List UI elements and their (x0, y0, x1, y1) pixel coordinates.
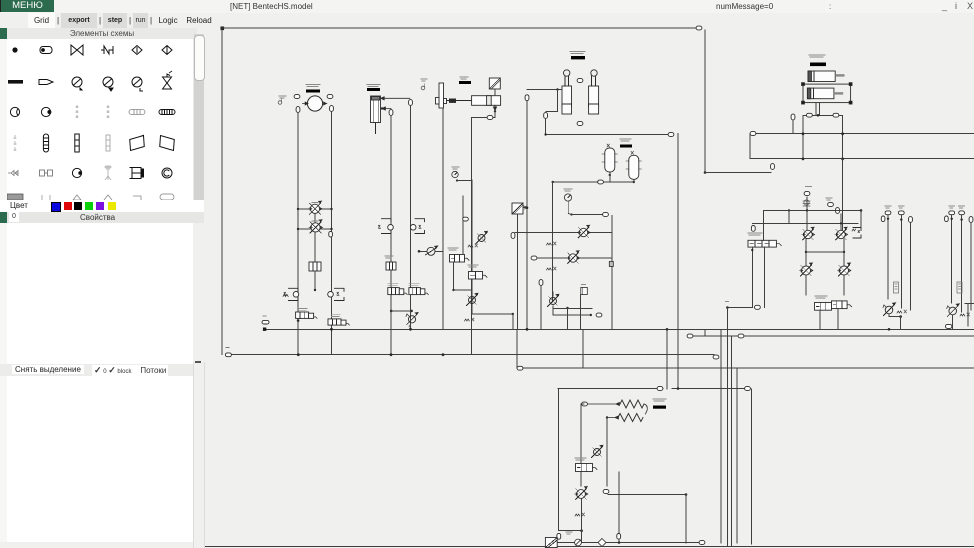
node RB v2 end (755, 305, 761, 309)
label RBV pair (815, 296, 827, 298)
wire tank right arrow 1 (381, 97, 410, 100)
junction RC top (960, 218, 962, 220)
node RC2 side a (945, 216, 949, 222)
wire col 443 (442, 108, 444, 329)
check valve L1 (308, 201, 322, 214)
junction bus (802, 158, 805, 161)
node B h2 end (745, 387, 751, 391)
wire twin feed down (545, 119, 547, 135)
valve M22 b (410, 219, 424, 234)
wire RB v1 (751, 247, 753, 308)
wire linblocks colL (802, 115, 804, 159)
check valve RB2 (835, 227, 848, 239)
label vise bar (459, 81, 471, 84)
label tank bar (367, 88, 380, 91)
spring S2 (618, 414, 643, 422)
junction W3 c (442, 353, 445, 356)
wire B left v (558, 389, 560, 531)
node RC2 cap0 (949, 211, 955, 215)
node twin top (577, 79, 583, 83)
label RB top text (806, 186, 812, 188)
node RC1 side b (909, 217, 913, 223)
junction L corner (704, 171, 707, 174)
wire RB v5 (763, 210, 765, 240)
node pump right top (327, 95, 333, 99)
valve L22 a (284, 288, 299, 300)
junction L1 a (297, 208, 299, 210)
wire Lbox down (314, 271, 316, 290)
wire filter to 370 (516, 329, 518, 368)
node bus R a (687, 334, 693, 338)
node col 793 (791, 114, 795, 120)
wire linblocks hrow (803, 114, 843, 116)
valve Nbox2 (469, 272, 488, 280)
label RC1 t1 (898, 206, 904, 208)
junction W3 a (297, 353, 300, 356)
node twin feed (544, 113, 548, 119)
wire MH left (419, 250, 427, 252)
wire L1 h2 (320, 208, 332, 210)
wire L1 h1 (298, 208, 310, 210)
junction P c (526, 328, 529, 331)
label RC2 t0 (949, 206, 955, 208)
spring marks L22a (283, 294, 288, 296)
linblocks cylinder 2 (807, 88, 843, 99)
check valve MH (426, 246, 438, 255)
node top border end (696, 26, 702, 30)
wire B v607 (606, 418, 608, 487)
wire MV link (391, 310, 411, 312)
wire accum A down (609, 172, 611, 182)
wire spring1 arrow (588, 403, 619, 406)
wire RB h2 (752, 222, 858, 224)
spring marks N3 (465, 318, 475, 321)
node drain (487, 116, 493, 120)
label pump bar (306, 90, 320, 93)
node linblocks left (807, 113, 813, 117)
junction bus (841, 132, 844, 135)
node RB top (804, 192, 810, 196)
valve L22 b (328, 288, 344, 300)
node tank wire1 (409, 100, 413, 106)
wire B h2 (672, 388, 748, 390)
node frame bottom corner (225, 353, 231, 357)
node twin bottom (577, 122, 583, 126)
wire RB mid v2 (840, 214, 842, 230)
junction EM15 a (297, 319, 300, 322)
wire twin v short (557, 90, 559, 112)
label Nbox (448, 248, 458, 250)
valve MV1 (388, 288, 408, 295)
wire RC2 v1 (951, 216, 953, 304)
junction accum bus (552, 181, 554, 183)
label vert RC2 (957, 282, 962, 293)
wire cv row1 (515, 232, 612, 234)
wire col 678 (677, 134, 679, 389)
wire B low h (559, 530, 582, 532)
label twin cyl text (570, 52, 585, 54)
node spring1 start (582, 402, 588, 406)
wire B v581 low (581, 499, 583, 543)
wire RB mid v3 (805, 239, 807, 266)
node pump left bottom (296, 107, 300, 113)
wire RBV down2 (837, 309, 839, 330)
label RC2 t1 (959, 206, 965, 208)
wire left border (221, 28, 223, 355)
label Nbox2 (468, 265, 478, 267)
node pump right bottom (330, 106, 334, 112)
label B mid (566, 532, 572, 534)
junction MVd2 (410, 310, 413, 313)
gauge vise (452, 171, 458, 177)
label motor M text (279, 96, 286, 98)
valve box L (309, 262, 321, 271)
label RC1 t0 (885, 206, 891, 208)
wire RC2 v2 (961, 216, 963, 313)
junction 571 (566, 307, 568, 309)
node pump left top (294, 95, 300, 99)
valve RC2 (947, 304, 960, 317)
filter mid arrow (524, 206, 528, 209)
node square 611 (609, 262, 613, 267)
node bus M start (750, 132, 756, 136)
wire RB link (806, 251, 844, 253)
node bus S start (517, 366, 523, 370)
flag box (581, 285, 588, 295)
label MV3 2 (409, 325, 411, 327)
spring marks B (575, 513, 585, 516)
junction RB d1 (805, 251, 807, 253)
junction W3 b (390, 353, 393, 356)
spring marks N1 (468, 244, 478, 247)
wire pump right down (331, 112, 333, 355)
linblocks cylinder 1 (808, 71, 845, 82)
wire N v3 (512, 314, 514, 329)
wire Nbox h (454, 289, 473, 291)
valve RC1 (883, 303, 896, 316)
node B 619 cap (617, 534, 621, 540)
node RC2 cap1 (959, 211, 965, 215)
wire gauge h (572, 214, 603, 216)
junction L1 b (330, 208, 332, 210)
junction RB e2 (840, 222, 842, 224)
wire clamp top (527, 89, 562, 91)
node cv row1 left (511, 233, 515, 239)
wire col 736 (736, 368, 738, 543)
wire clamp v (526, 101, 528, 330)
node L2 cap (329, 231, 333, 237)
label vert RC1 (894, 282, 899, 293)
wire top border (222, 27, 697, 29)
check valve B2 (575, 487, 588, 500)
junction B h3 (685, 493, 688, 496)
spring marks cv2 (547, 267, 557, 270)
wire twin h short (546, 111, 558, 113)
node bus Q end (668, 133, 674, 137)
junction col 667 (666, 328, 669, 331)
filter mid (512, 203, 523, 214)
label L1 (312, 202, 318, 204)
wire spring2 arrow (607, 416, 618, 419)
node tank wire2 (389, 110, 393, 116)
label T frame (226, 347, 229, 349)
junction P b (409, 328, 412, 331)
wire RC1 v1 (887, 216, 889, 300)
wire L mid v (314, 213, 316, 262)
node B cap (603, 490, 609, 494)
check valve CV2 (567, 251, 580, 263)
wire B h1 (558, 388, 663, 390)
wire vise v1 (471, 118, 473, 355)
wire bus N (750, 158, 974, 160)
label Bbox (575, 458, 586, 460)
label MV2 (409, 283, 419, 285)
node T-line end (713, 355, 719, 359)
valve box M (386, 262, 396, 270)
node B h1 end (657, 387, 663, 391)
junction B low (580, 529, 583, 532)
wire col 731 (731, 336, 733, 547)
wire B 581-584 link (581, 403, 584, 405)
junction P a (330, 328, 333, 331)
spring S1 (620, 400, 644, 408)
cylinder B (589, 70, 599, 114)
cylinder vise (472, 96, 501, 106)
node bus R b (738, 334, 744, 338)
wire drain left (472, 117, 495, 119)
motor symbol (278, 99, 282, 105)
spring marks cv1 (547, 242, 557, 245)
junction RB d2 (843, 251, 845, 253)
label vise text (460, 77, 468, 79)
wire col 727 (726, 308, 728, 547)
valve RBV1 (815, 303, 837, 311)
wire col 611 (611, 216, 613, 330)
wire tank v1 (410, 106, 412, 330)
vise plate (436, 83, 447, 108)
wire accum link (603, 181, 634, 183)
junction RB h1 (788, 209, 790, 211)
wire accum to bus (553, 181, 598, 183)
wire bottom T-line (232, 354, 715, 356)
valve MV3 (406, 313, 418, 325)
node clamp (525, 95, 529, 101)
cylinder A (562, 70, 572, 114)
wire cylinder drain arrow (493, 105, 496, 110)
wire RB mid v4 (843, 239, 845, 266)
junction MVd1 (390, 310, 393, 313)
wire RC1 v2 (900, 216, 902, 309)
wire col 842 down (842, 159, 844, 231)
wire RC1 vdown (900, 317, 902, 330)
wire RB v6 (788, 210, 790, 223)
wire bus S (517, 367, 974, 369)
junction B 678 (677, 387, 680, 390)
wire RC2 link (952, 315, 954, 329)
check valve RB1 (802, 227, 815, 239)
junction RB h1b (860, 209, 863, 212)
junction Nbox (452, 289, 454, 291)
label tank text (367, 85, 380, 87)
wire 854 v (860, 210, 862, 227)
node B bottom end (699, 541, 705, 545)
junction RC top (887, 218, 889, 220)
label blokSU bar (653, 406, 666, 409)
wire linblocks stub2 (819, 103, 821, 116)
node RB b (828, 203, 834, 207)
junction RC1 bus (888, 328, 891, 331)
label bus P tiny (263, 315, 266, 317)
wire main bus P (264, 328, 974, 330)
wire RBV down1 (819, 310, 821, 329)
valve EM15 a (296, 312, 318, 318)
wire col 583b (582, 329, 584, 368)
junction gauge main (570, 213, 572, 215)
gauge main (564, 194, 571, 201)
motor symbol vise (421, 84, 425, 90)
junction gauge vise (456, 179, 458, 181)
wire L vert (704, 30, 706, 173)
wire bottom long (204, 546, 974, 548)
junction N h2 (512, 313, 514, 315)
label EM15 a (299, 309, 308, 311)
node gauge h end (603, 213, 609, 217)
label MV1 (388, 283, 398, 285)
junction accum A (609, 174, 611, 176)
wire B v581 (580, 404, 582, 486)
label gauge vise (452, 167, 459, 169)
wire col 472 (471, 180, 473, 314)
wire accum v down (552, 182, 554, 302)
wire bus M elbow (749, 134, 751, 159)
valve RBV2 (832, 301, 852, 309)
junction accum B (633, 181, 635, 183)
wire col 541 (540, 286, 542, 330)
wire v5 down (552, 306, 554, 315)
wire linblocks stub1 (815, 103, 817, 116)
wire col 793 down (792, 120, 794, 134)
wire bus R (688, 335, 974, 337)
valve EM15 b (328, 319, 350, 325)
valve B1 (592, 445, 603, 457)
wire RB out1 (805, 275, 807, 295)
valve N1 (476, 231, 487, 243)
filter vise drain (489, 78, 500, 89)
wire 567 v (567, 308, 569, 329)
node square frame corner (221, 27, 225, 31)
wire gauge stub (457, 180, 472, 182)
junction filter (526, 206, 529, 209)
valve Nbox (450, 255, 470, 263)
wire L2 h2 (320, 228, 332, 230)
wire col 463 (462, 196, 464, 255)
wire v5 link (552, 292, 554, 296)
wire B bottom (556, 542, 700, 544)
wire RB mid v1 (806, 197, 808, 230)
node linblocks right (833, 113, 839, 117)
junction bus Q start (544, 133, 546, 135)
node RC2 side b (969, 217, 973, 223)
wire RB v2 (764, 247, 766, 308)
node RB c (836, 208, 840, 214)
pump tiny B (575, 539, 582, 546)
label EM15 b (332, 315, 341, 317)
spring marks RC2 (960, 313, 970, 316)
check valve L2 (309, 220, 323, 233)
wire B h3 (608, 494, 686, 496)
node RC1 side a (881, 216, 885, 222)
node bus P cap (262, 320, 269, 324)
wire linblocks colR (842, 115, 844, 159)
node L end (771, 164, 775, 170)
filter B (545, 538, 557, 548)
check valve CV1 (577, 225, 590, 237)
valve N2 (467, 293, 478, 305)
valve 854 (852, 228, 861, 239)
label L2 (312, 220, 318, 222)
label pump text (306, 85, 320, 87)
node Nbox top cap (463, 217, 469, 221)
junction RC top (900, 218, 902, 220)
vise rod (447, 99, 472, 102)
accumulator GA2 (602, 144, 617, 172)
junction RC top (951, 218, 953, 220)
wire accum B down (633, 179, 635, 182)
wire twin left feed (558, 89, 563, 91)
label h307 (726, 301, 729, 303)
label vise M (421, 79, 427, 81)
junction bus (802, 132, 805, 135)
wire bus M (750, 133, 974, 135)
junction MH (418, 250, 421, 253)
label linblocks bar (810, 63, 826, 67)
wire drain elbow (494, 111, 496, 117)
label blokSU text (653, 399, 666, 401)
junction L2 a (297, 228, 299, 230)
label prop valve (748, 233, 762, 235)
linblocks frame (802, 83, 852, 104)
wire pump left down (297, 113, 299, 355)
junction bus (841, 158, 844, 161)
label twin cyl bar (571, 56, 585, 59)
gauge stem (568, 201, 571, 215)
wire filter to cylinder (494, 89, 496, 96)
diamond tiny B (598, 539, 606, 547)
check valve RB3 (800, 263, 814, 276)
wire Nbox down (453, 262, 455, 290)
wire N h2 (472, 313, 513, 315)
node RC1 cap1 (898, 211, 904, 215)
wire filter stub (523, 207, 527, 209)
wire MH right (435, 250, 443, 252)
junction L2 b (330, 228, 332, 230)
junction RB v1 (751, 249, 753, 251)
node bus P end square (263, 328, 266, 331)
label accum text (620, 139, 631, 141)
node RC1 cap0 (885, 211, 891, 215)
accumulator GA1 (626, 151, 641, 179)
wire cv row2 (537, 257, 612, 259)
junction Lbox (314, 289, 316, 291)
wire RC1 link (888, 314, 890, 317)
node accum left (598, 180, 604, 184)
label accum bar (620, 145, 632, 148)
wire right edge h (965, 303, 974, 305)
spring S1 hook (644, 404, 647, 414)
node col 541 (539, 280, 543, 286)
wire flag v (580, 295, 582, 330)
valve prop (748, 240, 781, 247)
